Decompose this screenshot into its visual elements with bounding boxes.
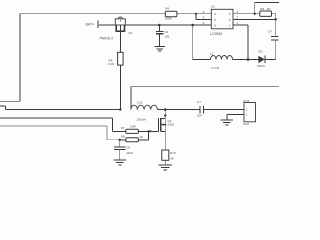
svg-text:R4: R4 xyxy=(165,7,169,11)
svg-text:L1: L1 xyxy=(210,51,214,55)
svg-text:2: 2 xyxy=(229,18,231,22)
svg-text:4.7uH: 4.7uH xyxy=(211,66,219,70)
svg-text:2.2K: 2.2K xyxy=(108,62,115,66)
svg-text:VO1: VO1 xyxy=(243,99,249,103)
svg-text:5: 5 xyxy=(214,18,216,22)
svg-text:4: 4 xyxy=(214,12,216,16)
svg-text:1: 1 xyxy=(229,24,231,28)
svg-text:5: 5 xyxy=(203,16,205,20)
svg-text:3: 3 xyxy=(229,12,231,16)
svg-text:4: 4 xyxy=(203,10,205,14)
svg-text:200uH: 200uH xyxy=(137,118,146,122)
svg-text:Q1: Q1 xyxy=(128,31,132,35)
svg-text:C7: C7 xyxy=(197,100,201,104)
svg-text:100K: 100K xyxy=(165,16,173,20)
svg-text:1: 1 xyxy=(237,21,239,25)
svg-text:6: 6 xyxy=(203,21,205,25)
svg-text:BAT+: BAT+ xyxy=(86,22,95,26)
svg-text:R7: R7 xyxy=(121,126,125,130)
svg-text:C3: C3 xyxy=(164,30,168,34)
svg-text:10uF: 10uF xyxy=(126,151,133,155)
svg-text:1: 1 xyxy=(246,113,248,117)
svg-text:PMOS-2: PMOS-2 xyxy=(100,37,114,41)
svg-text:2302: 2302 xyxy=(167,122,174,126)
svg-text:C5: C5 xyxy=(126,146,130,150)
svg-text:SS24: SS24 xyxy=(257,64,265,68)
svg-text:104: 104 xyxy=(197,114,202,118)
svg-text:3: 3 xyxy=(237,10,239,14)
svg-text:R8: R8 xyxy=(121,135,125,139)
svg-text:U2: U2 xyxy=(211,5,215,9)
svg-text:R10: R10 xyxy=(170,151,176,155)
svg-text:6: 6 xyxy=(214,24,216,28)
svg-text:LC9582: LC9582 xyxy=(210,32,223,36)
svg-text:D2: D2 xyxy=(258,49,262,53)
svg-text:C32: C32 xyxy=(137,100,143,104)
svg-text:2: 2 xyxy=(237,16,239,20)
svg-text:105: 105 xyxy=(164,35,169,39)
svg-text:R5: R5 xyxy=(260,7,264,11)
svg-text:10R: 10R xyxy=(130,125,136,129)
svg-text:2: 2 xyxy=(246,107,248,111)
svg-text:C4: C4 xyxy=(268,29,272,33)
svg-text:CN2: CN2 xyxy=(243,122,249,126)
